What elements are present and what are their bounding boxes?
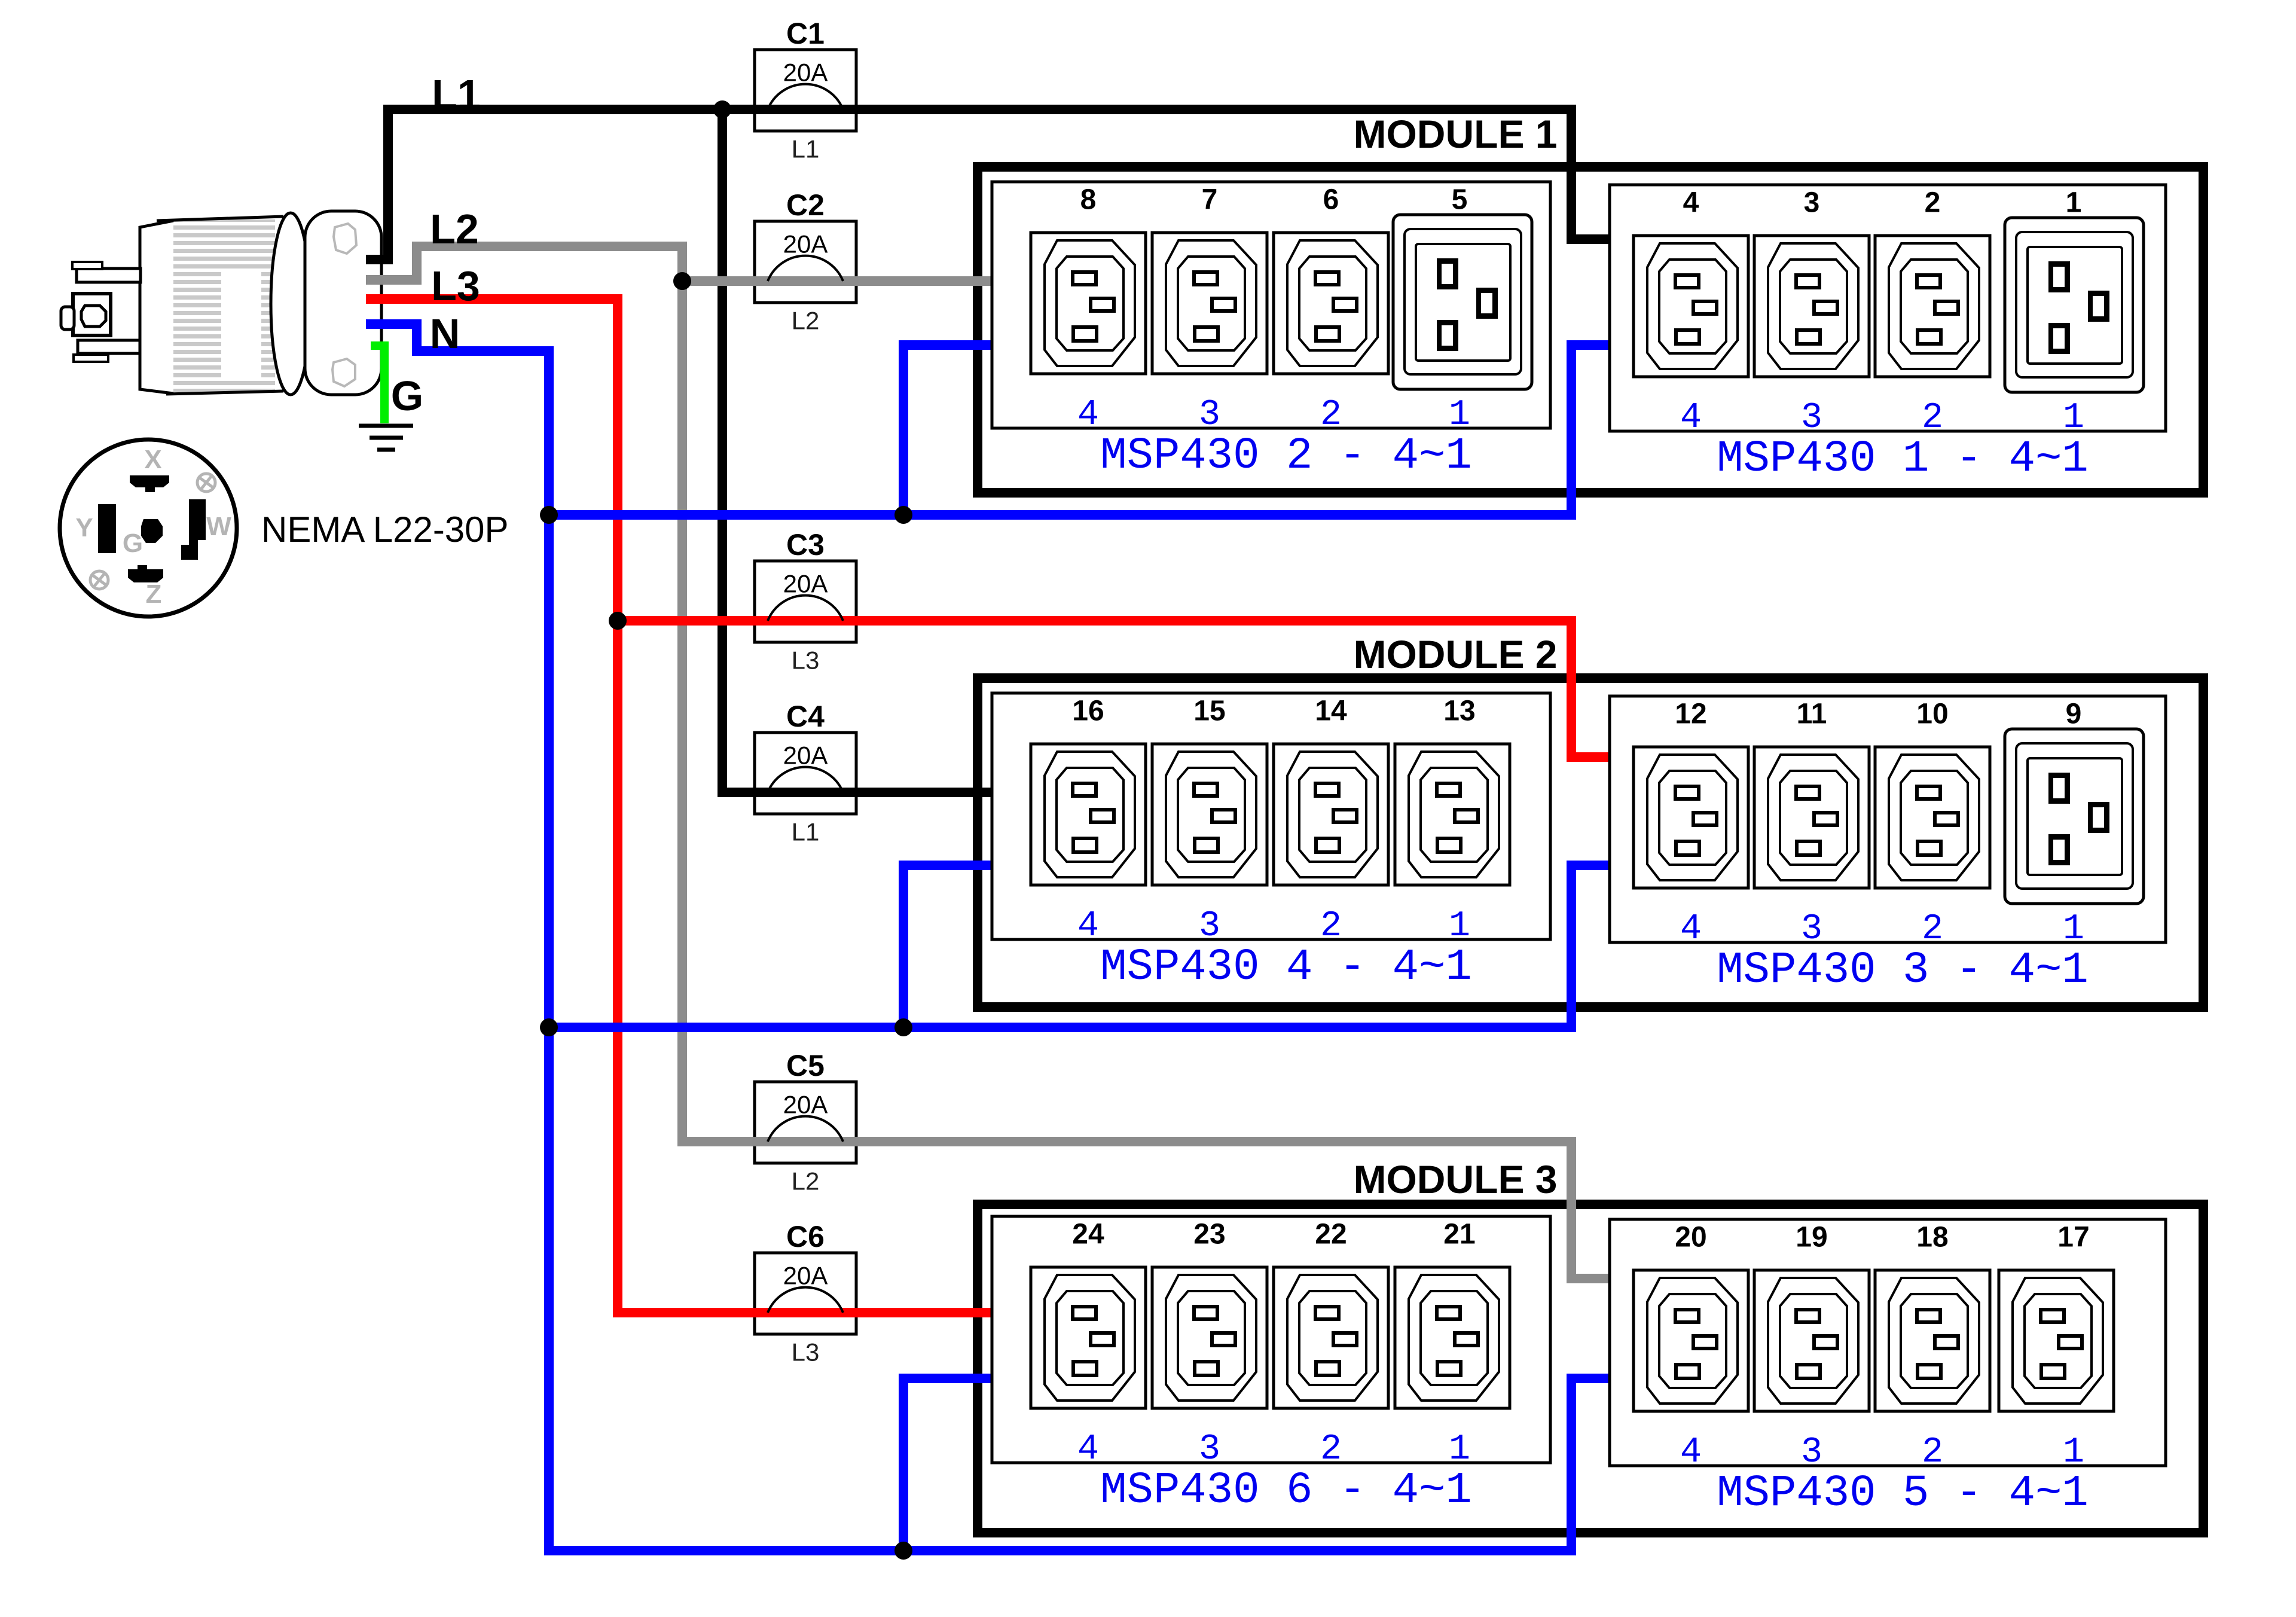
svg-text:L3: L3: [431, 263, 480, 309]
svg-text:G: G: [391, 373, 423, 419]
svg-text:C5: C5: [786, 1049, 825, 1082]
breaker C5 box: [755, 1082, 856, 1163]
outlet group MSP430 5: [1610, 1219, 2166, 1466]
svg-text:C6: C6: [786, 1220, 825, 1253]
outlet numbers 12-9: [1675, 698, 2081, 730]
svg-text:L1: L1: [792, 135, 820, 163]
svg-text:9: 9: [2066, 698, 2082, 730]
breaker C4 arc: [768, 767, 843, 792]
wire L1 branch to C4: [722, 109, 992, 792]
svg-text:Y: Y: [75, 513, 93, 542]
svg-text:20A: 20A: [783, 570, 828, 598]
breaker C4 box: [755, 733, 856, 814]
plug index numbers 4 3 2 1: [1077, 1429, 1470, 1470]
outlet numbers 4-1: [1683, 187, 2082, 219]
svg-text:21: 21: [1443, 1219, 1475, 1250]
breaker C3 box: [755, 561, 856, 642]
outlet group MSP430 2: [992, 182, 1550, 428]
breaker C2 box: [755, 221, 856, 303]
svg-text:MODULE 3: MODULE 3: [1353, 1157, 1557, 1201]
node N junction m1b: [894, 506, 912, 524]
node N junction m2a: [540, 1018, 558, 1036]
wire N module1 left branch: [903, 345, 992, 515]
node N junction m2b: [894, 1018, 912, 1036]
svg-text:14: 14: [1315, 695, 1347, 727]
outlet 2 (C13): [1875, 236, 1990, 377]
node L2 junction: [673, 272, 691, 290]
svg-text:C2: C2: [786, 188, 825, 222]
plug face hole bottom: [332, 359, 355, 386]
outlet 22 (C13): [1274, 1267, 1388, 1408]
svg-text:2: 2: [1922, 1432, 1943, 1473]
svg-text:4: 4: [1077, 1429, 1099, 1470]
svg-text:2: 2: [1922, 398, 1943, 438]
svg-text:1: 1: [2063, 398, 2084, 438]
outlet 14 (C13): [1274, 744, 1388, 885]
svg-text:Z: Z: [146, 579, 162, 609]
outlet numbers 20-17: [1675, 1222, 2089, 1253]
plug center pin: [73, 294, 111, 335]
pin G (center): [141, 519, 163, 543]
outlet 12 (C13): [1634, 747, 1748, 888]
wire L1 main: [366, 109, 1610, 260]
breaker C6 box: [755, 1253, 856, 1334]
svg-text:N: N: [430, 310, 460, 357]
svg-text:L3: L3: [792, 646, 820, 675]
outlet 6 (C13): [1274, 233, 1388, 374]
plug bottom blade: [78, 340, 140, 353]
svg-text:4: 4: [1680, 1432, 1702, 1473]
svg-text:MSP430 1 - 4~1: MSP430 1 - 4~1: [1717, 434, 2089, 484]
outlet 17 (C13): [1999, 1270, 2114, 1411]
outlet 8 (C13): [1031, 233, 1146, 374]
svg-text:20A: 20A: [783, 1091, 828, 1119]
svg-text:1: 1: [2066, 187, 2082, 219]
outlet 3 (C13): [1754, 236, 1869, 377]
svg-text:3: 3: [1199, 395, 1220, 435]
svg-text:3: 3: [1801, 1432, 1822, 1473]
svg-text:2: 2: [1320, 1429, 1342, 1470]
svg-text:12: 12: [1675, 698, 1706, 730]
svg-text:18: 18: [1916, 1222, 1948, 1253]
outlet 20 (C13): [1634, 1270, 1748, 1411]
svg-text:L3: L3: [792, 1338, 820, 1366]
node L3 junction: [609, 612, 627, 630]
svg-text:11: 11: [1797, 698, 1827, 730]
node N junction m1a: [540, 506, 558, 524]
svg-text:8: 8: [1080, 184, 1097, 216]
plug face hole top: [334, 224, 356, 254]
svg-text:L1: L1: [432, 71, 481, 118]
node L1 junction: [713, 100, 731, 118]
svg-text:19: 19: [1796, 1222, 1827, 1253]
svg-text:4: 4: [1077, 395, 1099, 435]
wire L2 main: [366, 246, 1610, 1279]
svg-text:MSP430 5 - 4~1: MSP430 5 - 4~1: [1717, 1469, 2089, 1519]
outlet 9 (C19): [2005, 729, 2144, 904]
NEMA L22-30P pin-face circle: [60, 440, 237, 617]
plug index numbers 4 3 2 1: [1680, 398, 2084, 438]
svg-text:7: 7: [1202, 184, 1218, 216]
outlet 11 (C13): [1754, 747, 1869, 888]
svg-text:2: 2: [1925, 187, 1941, 219]
outlet 24 (C13): [1031, 1267, 1146, 1408]
svg-text:24: 24: [1072, 1219, 1104, 1250]
breaker C5 arc: [768, 1116, 843, 1142]
breaker C6 arc: [768, 1288, 843, 1313]
svg-text:3: 3: [1199, 1429, 1220, 1470]
outlet group MSP430 1: [1610, 185, 2166, 431]
svg-text:C3: C3: [786, 528, 825, 562]
svg-text:X: X: [144, 445, 161, 474]
svg-text:4: 4: [1680, 909, 1702, 950]
svg-text:20A: 20A: [783, 742, 828, 770]
outlet 18 (C13): [1875, 1270, 1990, 1411]
svg-text:1: 1: [1449, 395, 1470, 435]
svg-text:1: 1: [2063, 1432, 2084, 1473]
outlet 4 (C13): [1634, 236, 1748, 377]
outlet 16 (C13): [1031, 744, 1146, 885]
svg-text:3: 3: [1801, 398, 1822, 438]
svg-text:15: 15: [1193, 695, 1225, 727]
ground: [359, 426, 413, 450]
outlet 19 (C13): [1754, 1270, 1869, 1411]
svg-text:4: 4: [1077, 906, 1099, 947]
node N junction m3: [894, 1542, 912, 1560]
svg-text:MSP430 3 - 4~1: MSP430 3 - 4~1: [1717, 945, 2089, 996]
svg-text:MODULE 1: MODULE 1: [1353, 112, 1557, 156]
module box MODULE 3: [978, 1204, 2203, 1533]
outlet 13 (C13): [1395, 744, 1510, 885]
svg-text:1: 1: [2063, 909, 2084, 950]
plug collar ring: [271, 213, 310, 395]
breaker C2 arc: [768, 256, 843, 281]
outlet 5 (C19): [1393, 215, 1532, 389]
outlet group MSP430 4: [992, 693, 1550, 939]
wire L3 main: [366, 299, 992, 1313]
plug index numbers 4 3 2 1: [1077, 906, 1470, 947]
svg-text:17: 17: [2057, 1222, 2089, 1253]
svg-text:L2: L2: [792, 307, 820, 335]
svg-text:NEMA L22-30P: NEMA L22-30P: [261, 509, 509, 550]
svg-text:L1: L1: [792, 818, 820, 846]
plug index numbers 4 3 2 1: [1680, 1432, 2084, 1473]
svg-text:13: 13: [1443, 695, 1475, 727]
svg-text:1: 1: [1449, 906, 1470, 947]
module box MODULE 1: [978, 167, 2203, 493]
svg-text:16: 16: [1072, 695, 1104, 727]
svg-text:10: 10: [1916, 698, 1948, 730]
breaker C1 arc: [768, 84, 843, 109]
plug index numbers 4 3 2 1: [1680, 909, 2084, 950]
svg-text:20A: 20A: [783, 59, 828, 87]
svg-text:2: 2: [1320, 395, 1342, 435]
svg-text:MODULE 2: MODULE 2: [1353, 632, 1557, 676]
wire N module1 row: [549, 345, 1610, 515]
outlet 1 (C19): [2005, 218, 2144, 392]
outlet numbers 24-21: [1072, 1219, 1475, 1250]
wire G: [371, 346, 384, 423]
svg-text:20A: 20A: [783, 230, 828, 258]
svg-text:2: 2: [1320, 906, 1342, 947]
svg-text:MSP430 4 - 4~1: MSP430 4 - 4~1: [1100, 942, 1472, 993]
plug body hatch: [157, 216, 283, 394]
svg-text:3: 3: [1199, 906, 1220, 947]
plug top blade: [77, 269, 141, 282]
svg-text:2: 2: [1922, 909, 1943, 950]
module box MODULE 2: [978, 678, 2203, 1007]
outlet group MSP430 3: [1610, 696, 2166, 942]
outlet numbers 16-13: [1072, 695, 1475, 727]
svg-text:4: 4: [1680, 398, 1702, 438]
plug index numbers 4 3 2 1: [1077, 395, 1470, 435]
outlet 10 (C13): [1875, 747, 1990, 888]
svg-text:1: 1: [1449, 1429, 1470, 1470]
svg-text:MSP430 6 - 4~1: MSP430 6 - 4~1: [1100, 1466, 1472, 1516]
svg-text:G: G: [123, 529, 143, 558]
outlet 23 (C13): [1152, 1267, 1267, 1408]
outlet 7 (C13): [1152, 233, 1267, 374]
wire L2 branch to C2: [682, 276, 992, 286]
svg-text:3: 3: [1801, 909, 1822, 950]
svg-text:22: 22: [1315, 1219, 1347, 1250]
pin Y (left): [98, 504, 116, 553]
breaker C1 box: [755, 50, 856, 131]
svg-text:23: 23: [1193, 1219, 1225, 1250]
wire N main: [366, 324, 1610, 1551]
outlet 21 (C13): [1395, 1267, 1510, 1408]
svg-text:4: 4: [1683, 187, 1699, 219]
wire N module2 left branch: [903, 865, 992, 1027]
pin Z (bottom): [128, 565, 163, 582]
svg-text:C4: C4: [786, 700, 825, 733]
breaker C3 arc: [768, 596, 843, 621]
wire N module2 row: [549, 865, 1610, 1027]
svg-text:L2: L2: [792, 1167, 820, 1195]
svg-text:3: 3: [1804, 187, 1820, 219]
svg-text:C1: C1: [786, 17, 825, 50]
svg-text:MSP430 2 - 4~1: MSP430 2 - 4~1: [1100, 431, 1472, 481]
svg-text:20: 20: [1675, 1222, 1706, 1253]
svg-text:20A: 20A: [783, 1262, 828, 1290]
svg-text:6: 6: [1323, 184, 1339, 216]
plug neck: [140, 221, 173, 393]
plug face: [305, 211, 381, 395]
wire L3 branch to C3: [618, 621, 1610, 757]
svg-text:L2: L2: [430, 206, 479, 252]
pin labels: [75, 445, 231, 609]
svg-text:W: W: [206, 512, 231, 541]
outlet 15 (C13): [1152, 744, 1267, 885]
pin W (right): [181, 499, 206, 560]
pin X (top): [130, 475, 169, 492]
svg-text:5: 5: [1452, 184, 1468, 216]
outlet numbers 8-5: [1080, 184, 1468, 216]
wire N module3 left branch: [903, 1378, 992, 1551]
outlet group MSP430 6: [992, 1216, 1550, 1463]
